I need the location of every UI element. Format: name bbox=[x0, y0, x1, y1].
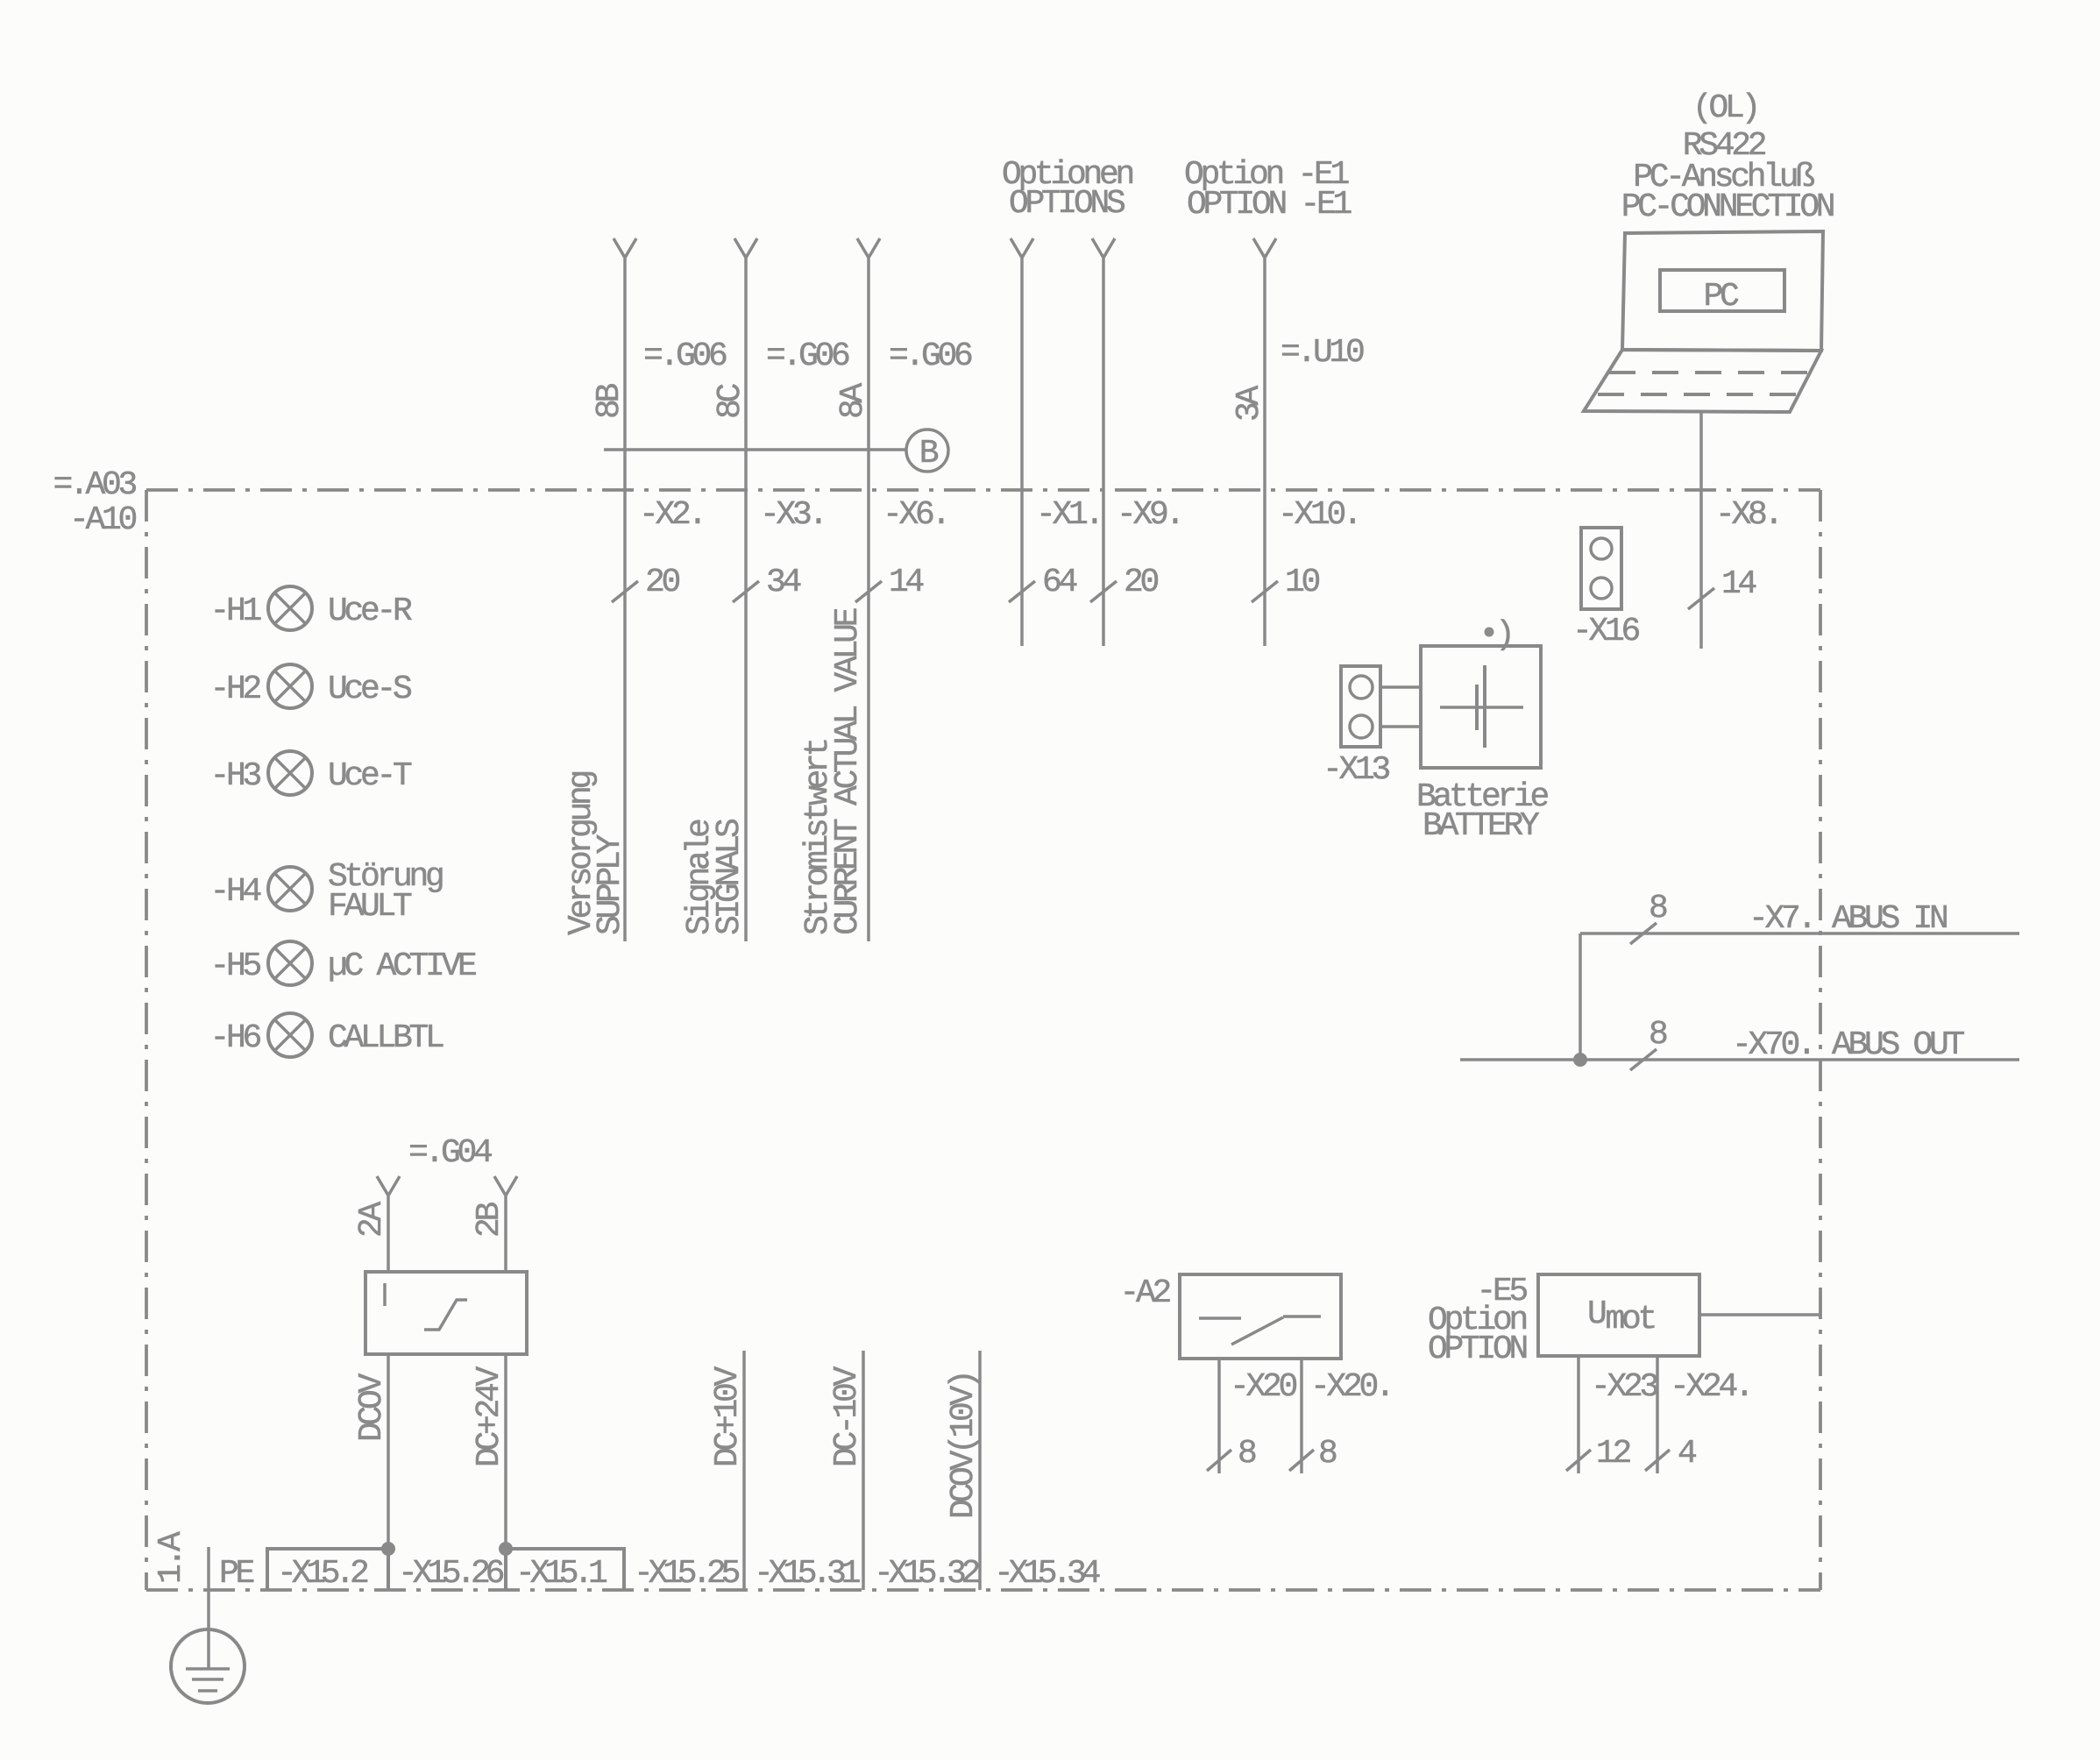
svg-text:-H3: -H3 bbox=[209, 757, 260, 795]
wire -X1 with arrow bbox=[1009, 238, 1035, 646]
svg-text:4: 4 bbox=[1678, 1435, 1696, 1473]
svg-text:DC-10V: DC-10V bbox=[828, 1366, 866, 1467]
wire -X20 bbox=[1207, 1359, 1231, 1473]
wire -X23 bbox=[1566, 1356, 1591, 1473]
svg-text:-X1.: -X1. bbox=[1036, 496, 1101, 534]
svg-text:1.A: 1.A bbox=[153, 1531, 190, 1584]
ground / protective earth bbox=[171, 1629, 245, 1703]
svg-text:PC: PC bbox=[1703, 278, 1739, 316]
wire DC+10V bbox=[742, 1351, 746, 1590]
svg-text:14: 14 bbox=[889, 564, 924, 601]
connector -X13 bbox=[1341, 666, 1380, 747]
svg-text:-X15.2: -X15.2 bbox=[277, 1555, 368, 1593]
svg-text:-H1: -H1 bbox=[209, 593, 260, 630]
svg-text:-X15.25: -X15.25 bbox=[634, 1555, 740, 1593]
svg-text:12: 12 bbox=[1596, 1435, 1631, 1473]
wire -X20. bbox=[1289, 1359, 1314, 1473]
svg-text:DC+10V: DC+10V bbox=[709, 1366, 747, 1467]
svg-text:-X15.34: -X15.34 bbox=[994, 1555, 1100, 1593]
wire ABUS vertical bbox=[1579, 933, 1582, 1060]
svg-text:-X15.32: -X15.32 bbox=[874, 1555, 980, 1593]
svg-text:3A: 3A bbox=[1231, 385, 1268, 422]
svg-text:(OL): (OL) bbox=[1692, 89, 1757, 127]
wire -X8 from PC bbox=[1688, 412, 1714, 649]
svg-text:CURRENT ACTUAL VALUE: CURRENT ACTUAL VALUE bbox=[829, 608, 867, 935]
wire -X10 with arrow bbox=[1252, 238, 1278, 646]
svg-text:-X20.: -X20. bbox=[1310, 1368, 1392, 1406]
svg-text:SUPPLY: SUPPLY bbox=[592, 834, 629, 935]
lamp H6 bbox=[268, 1013, 312, 1057]
svg-text:OPTION: OPTION bbox=[1428, 1331, 1527, 1368]
svg-text:PE: PE bbox=[219, 1555, 254, 1593]
node B bbox=[906, 429, 948, 472]
svg-text:-H5: -H5 bbox=[209, 947, 260, 985]
svg-text:8: 8 bbox=[1649, 1016, 1667, 1054]
svg-text:-H2: -H2 bbox=[209, 671, 260, 708]
svg-text:FAULT: FAULT bbox=[328, 888, 412, 926]
svg-text:-X15.31: -X15.31 bbox=[754, 1555, 860, 1593]
PC label box bbox=[1660, 270, 1784, 311]
svg-text:-X2.: -X2. bbox=[639, 496, 704, 534]
svg-text:8: 8 bbox=[1318, 1435, 1337, 1473]
wire -X9 with arrow bbox=[1090, 238, 1117, 646]
svg-text:8: 8 bbox=[1238, 1435, 1256, 1473]
ABUS IN line -X7. bbox=[1580, 923, 2019, 944]
svg-text:10: 10 bbox=[1285, 564, 1320, 601]
svg-text:DCOV: DCOV bbox=[353, 1373, 391, 1442]
svg-text:-H4: -H4 bbox=[209, 873, 260, 911]
svg-text:=.G06: =.G06 bbox=[889, 337, 972, 375]
svg-text:ABUS IN: ABUS IN bbox=[1832, 900, 1947, 938]
svg-text:ABUS OUT: ABUS OUT bbox=[1832, 1026, 1965, 1064]
svg-text:2A: 2A bbox=[353, 1201, 391, 1238]
svg-text:-X23: -X23 bbox=[1591, 1368, 1658, 1406]
svg-text:-X70.: -X70. bbox=[1732, 1026, 1813, 1064]
wire DC-10V bbox=[862, 1351, 865, 1590]
power supply G04 ramp box bbox=[365, 1272, 527, 1354]
svg-text:-X20: -X20 bbox=[1230, 1368, 1297, 1406]
svg-text:-X15.26: -X15.26 bbox=[398, 1555, 504, 1593]
svg-text:8A: 8A bbox=[834, 382, 872, 419]
svg-text:20: 20 bbox=[645, 564, 680, 601]
svg-text:-A10: -A10 bbox=[69, 501, 137, 539]
svg-text:DC+24V: DC+24V bbox=[471, 1366, 508, 1467]
wire DC+24V bbox=[504, 1354, 507, 1549]
svg-text:CALLBTL: CALLBTL bbox=[328, 1019, 443, 1057]
svg-text:-X15.1: -X15.1 bbox=[515, 1555, 607, 1593]
svg-text:-X16: -X16 bbox=[1572, 613, 1640, 650]
svg-text:14: 14 bbox=[1721, 565, 1756, 603]
wires X13 to battery bbox=[1380, 687, 1421, 727]
svg-text:Umot: Umot bbox=[1587, 1295, 1655, 1338]
wire to node B bbox=[604, 448, 905, 451]
svg-text:-X6.: -X6. bbox=[883, 496, 947, 534]
wire DCOV(10V) bbox=[978, 1351, 982, 1590]
lamp H4 bbox=[268, 867, 312, 911]
svg-text:OPTION -E1: OPTION -E1 bbox=[1187, 186, 1352, 224]
lamp H5 bbox=[268, 941, 312, 985]
svg-text:µC ACTIVE: µC ACTIVE bbox=[328, 947, 476, 985]
lamp H3 bbox=[268, 751, 312, 795]
wire Umot to boundary bbox=[1699, 1313, 1820, 1316]
terminal -X15.2 bbox=[267, 1549, 388, 1590]
svg-text:): ) bbox=[1495, 616, 1512, 654]
wire -X6 with arrow bbox=[855, 238, 882, 941]
svg-text:2B: 2B bbox=[471, 1202, 508, 1238]
junction DCOV bbox=[381, 1542, 395, 1556]
PC laptop screen bbox=[1622, 231, 1823, 351]
wire 2B with arrow bbox=[494, 1176, 517, 1272]
terminal -X15.1 bbox=[506, 1549, 624, 1590]
svg-text:SIGNALS: SIGNALS bbox=[711, 820, 748, 935]
svg-text:=.G06: =.G06 bbox=[643, 337, 727, 375]
PC laptop keyboard bbox=[1584, 350, 1821, 412]
wire 2A with arrow bbox=[377, 1176, 400, 1272]
wire -X3 with arrow bbox=[733, 238, 759, 941]
svg-text:-X7.: -X7. bbox=[1749, 900, 1813, 938]
svg-text:8C: 8C bbox=[712, 383, 749, 419]
svg-text:Uce-R: Uce-R bbox=[328, 593, 412, 630]
svg-text:=.A03: =.A03 bbox=[53, 466, 136, 504]
svg-text:64: 64 bbox=[1042, 564, 1077, 601]
enclosure boundary dash-dot box =.A03 -A10 bbox=[145, 490, 148, 1590]
wire DCOV bbox=[387, 1354, 390, 1549]
wire -X2 with arrow bbox=[612, 238, 638, 941]
svg-text:-X13: -X13 bbox=[1323, 751, 1390, 789]
junction bbox=[1573, 1053, 1587, 1067]
svg-text:DCOV(10V): DCOV(10V) bbox=[945, 1373, 983, 1519]
svg-text:8B: 8B bbox=[591, 383, 628, 419]
svg-text:-A2: -A2 bbox=[1119, 1274, 1170, 1312]
note mark .) bbox=[1485, 628, 1494, 637]
ABUS OUT line -X70. bbox=[1460, 1049, 2019, 1070]
svg-text:Uce-S: Uce-S bbox=[328, 671, 411, 708]
wire PE bbox=[207, 1547, 210, 1669]
svg-text:BATTERY: BATTERY bbox=[1422, 807, 1540, 845]
svg-text:-H6: -H6 bbox=[209, 1019, 260, 1057]
svg-text:=.G06: =.G06 bbox=[766, 337, 849, 375]
svg-text:Uce-T: Uce-T bbox=[328, 757, 412, 795]
svg-text:-X9.: -X9. bbox=[1117, 496, 1181, 534]
svg-text:=.G04: =.G04 bbox=[408, 1134, 492, 1172]
svg-text:-X8.: -X8. bbox=[1715, 496, 1780, 534]
svg-text:OPTIONS: OPTIONS bbox=[1009, 185, 1124, 223]
svg-text:8: 8 bbox=[1649, 890, 1667, 927]
svg-text:20: 20 bbox=[1124, 564, 1159, 601]
battery G bbox=[1421, 646, 1541, 768]
svg-text:-X10.: -X10. bbox=[1278, 496, 1359, 534]
svg-text:PC-CONNECTION: PC-CONNECTION bbox=[1621, 188, 1834, 226]
svg-text:-X24.: -X24. bbox=[1670, 1368, 1751, 1406]
connector -X16 bbox=[1581, 528, 1621, 609]
svg-text:-X3.: -X3. bbox=[760, 496, 825, 534]
svg-text:=.U10: =.U10 bbox=[1281, 334, 1364, 372]
wire -X24. bbox=[1645, 1356, 1670, 1473]
junction DC+24V bbox=[499, 1542, 513, 1556]
lamp H2 bbox=[268, 664, 312, 708]
lamp H1 bbox=[268, 586, 312, 630]
svg-text:34: 34 bbox=[766, 564, 801, 601]
